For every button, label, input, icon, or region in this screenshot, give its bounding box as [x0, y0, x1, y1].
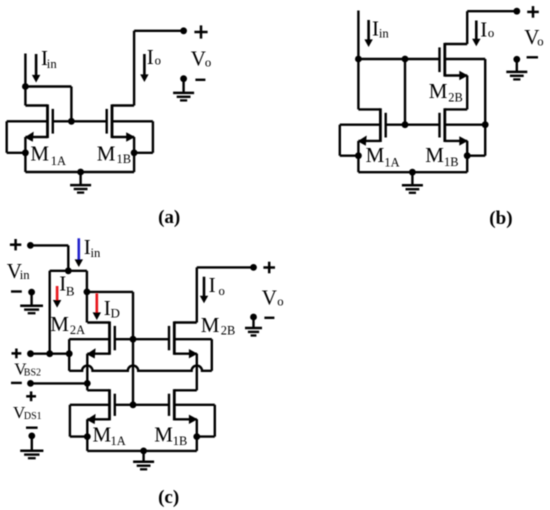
svg-text:V: V: [191, 47, 206, 71]
svg-text:I: I: [480, 18, 487, 42]
svg-text:M: M: [201, 313, 220, 337]
svg-text:o: o: [155, 53, 161, 67]
svg-text:1A: 1A: [51, 154, 66, 168]
svg-text:2A: 2A: [70, 323, 85, 337]
svg-text:M: M: [366, 143, 385, 167]
svg-text:1A: 1A: [111, 434, 126, 448]
svg-text:BS2: BS2: [24, 368, 41, 379]
svg-text:M: M: [93, 423, 112, 447]
svg-text:o: o: [205, 56, 211, 70]
svg-text:D: D: [111, 305, 120, 320]
svg-text:M: M: [50, 312, 69, 336]
svg-text:o: o: [219, 284, 225, 298]
svg-text:1B: 1B: [173, 434, 187, 448]
svg-text:(c): (c): [158, 487, 179, 508]
svg-text:in: in: [20, 268, 31, 282]
svg-text:B: B: [66, 284, 75, 299]
svg-text:I: I: [209, 273, 216, 297]
svg-text:V: V: [262, 285, 277, 309]
svg-text:M: M: [154, 422, 173, 446]
svg-text:(b): (b): [489, 208, 512, 229]
svg-text:M: M: [425, 143, 444, 167]
svg-text:2B: 2B: [221, 324, 235, 338]
svg-text:1B: 1B: [444, 155, 458, 169]
svg-text:o: o: [277, 295, 283, 309]
svg-text:I: I: [147, 45, 154, 69]
svg-text:1B: 1B: [117, 152, 131, 166]
svg-text:M: M: [429, 79, 448, 103]
svg-text:in: in: [379, 26, 390, 40]
svg-text:in: in: [91, 246, 102, 260]
svg-text:o: o: [537, 35, 543, 49]
svg-text:o: o: [488, 26, 494, 40]
svg-text:1A: 1A: [384, 156, 399, 170]
svg-text:M: M: [30, 141, 49, 165]
svg-text:DS1: DS1: [24, 411, 42, 422]
svg-text:(a): (a): [158, 207, 180, 228]
svg-text:M: M: [97, 142, 116, 166]
svg-text:in: in: [47, 57, 58, 71]
svg-text:2B: 2B: [448, 91, 462, 105]
